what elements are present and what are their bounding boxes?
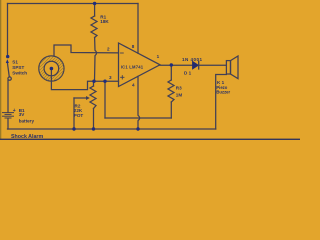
wire: sensor top lead to pin2 — [54, 45, 119, 56]
svg-text:+: + — [13, 108, 16, 114]
buzzer K1 body — [226, 61, 230, 74]
svg-text:R3: R3 — [176, 86, 182, 91]
sensor center dot — [50, 67, 54, 71]
op-amp plus sign — [121, 76, 124, 78]
piezo sensor hatch ring — [23, 56, 81, 81]
R2 wiper arrow — [74, 97, 88, 99]
svg-text:3: 3 — [109, 75, 112, 80]
wire: feedback return to node A — [105, 117, 171, 119]
node: pin4 ground — [136, 127, 139, 130]
svg-text:Switch: Switch — [12, 71, 27, 76]
svg-text:1N 4001: 1N 4001 — [182, 57, 203, 62]
piezo sensor outer circle — [39, 56, 64, 81]
wire: pin 8 supply drop — [137, 4, 139, 54]
svg-text:D 1: D 1 — [184, 71, 192, 76]
svg-text:battery: battery — [19, 118, 35, 123]
wire: output pin 1 — [160, 64, 193, 66]
battery B1 plates — [3, 113, 14, 118]
piezo sensor inner circle — [44, 61, 59, 76]
potentiometer R2 22K zigzag — [93, 81, 95, 86]
svg-text:Buzzer: Buzzer — [216, 90, 230, 95]
svg-text:Shock Alarm: Shock Alarm — [11, 134, 43, 140]
svg-text:POT: POT — [74, 113, 84, 118]
switch S1 blade — [7, 62, 9, 77]
node: output junction — [170, 63, 173, 66]
wire: left rail mid (switch to battery) — [7, 80, 9, 112]
wire: sensor bottom lead to node A — [51, 70, 118, 90]
wire: R1 bottom lead with hop over pin2 wire — [95, 38, 97, 82]
svg-text:1M: 1M — [176, 93, 183, 98]
node: wiper ground — [72, 127, 75, 130]
wire: wiper to ground — [73, 98, 75, 129]
svg-text:2: 2 — [107, 47, 110, 52]
wire: buzzer return to ground — [216, 75, 227, 130]
bottom edge dark row — [0, 139, 300, 140]
svg-text:4: 4 — [132, 83, 135, 88]
svg-text:8: 8 — [132, 44, 135, 49]
wire: pin 4 to ground with hop — [138, 76, 140, 129]
left edge shading — [0, 0, 1, 140]
switch arrowhead — [6, 59, 9, 63]
wire: diode to buzzer — [199, 64, 227, 66]
svg-text:S1: S1 — [12, 60, 18, 65]
node: R2 ground — [92, 127, 95, 130]
svg-text:IC1 LM741: IC1 LM741 — [121, 65, 144, 70]
wire: top rail V+ — [8, 3, 139, 5]
svg-text:18K: 18K — [100, 19, 109, 24]
op-amp U1 triangle — [119, 43, 161, 87]
resistor R3 1M — [170, 65, 172, 80]
node: R1 top junction — [93, 2, 96, 5]
switch S1 lower terminal circle — [8, 77, 11, 80]
resistor R1 18K leads + zigzag — [94, 4, 96, 17]
wire: bottom rail (ground) — [8, 128, 216, 130]
svg-text:1: 1 — [157, 54, 160, 59]
node A: feedback junction — [103, 80, 106, 83]
diode D1 — [193, 61, 199, 69]
wire: left rail lower (battery to bottom rail) — [7, 118, 9, 129]
node: switch upper terminal — [6, 55, 9, 58]
node A: R1/R2 junction — [92, 80, 95, 83]
buzzer K1 horn — [231, 56, 239, 79]
wire: left rail upper — [7, 4, 9, 57]
svg-text:SPST: SPST — [12, 65, 24, 70]
op-amp minus sign — [121, 52, 124, 54]
svg-text:3V: 3V — [19, 112, 26, 117]
